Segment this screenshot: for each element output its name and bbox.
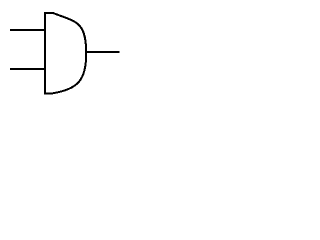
wire input A: [10, 29, 46, 31]
and-gate U1: [45, 13, 86, 93]
wire output: [86, 51, 120, 53]
wire input B: [10, 68, 46, 70]
